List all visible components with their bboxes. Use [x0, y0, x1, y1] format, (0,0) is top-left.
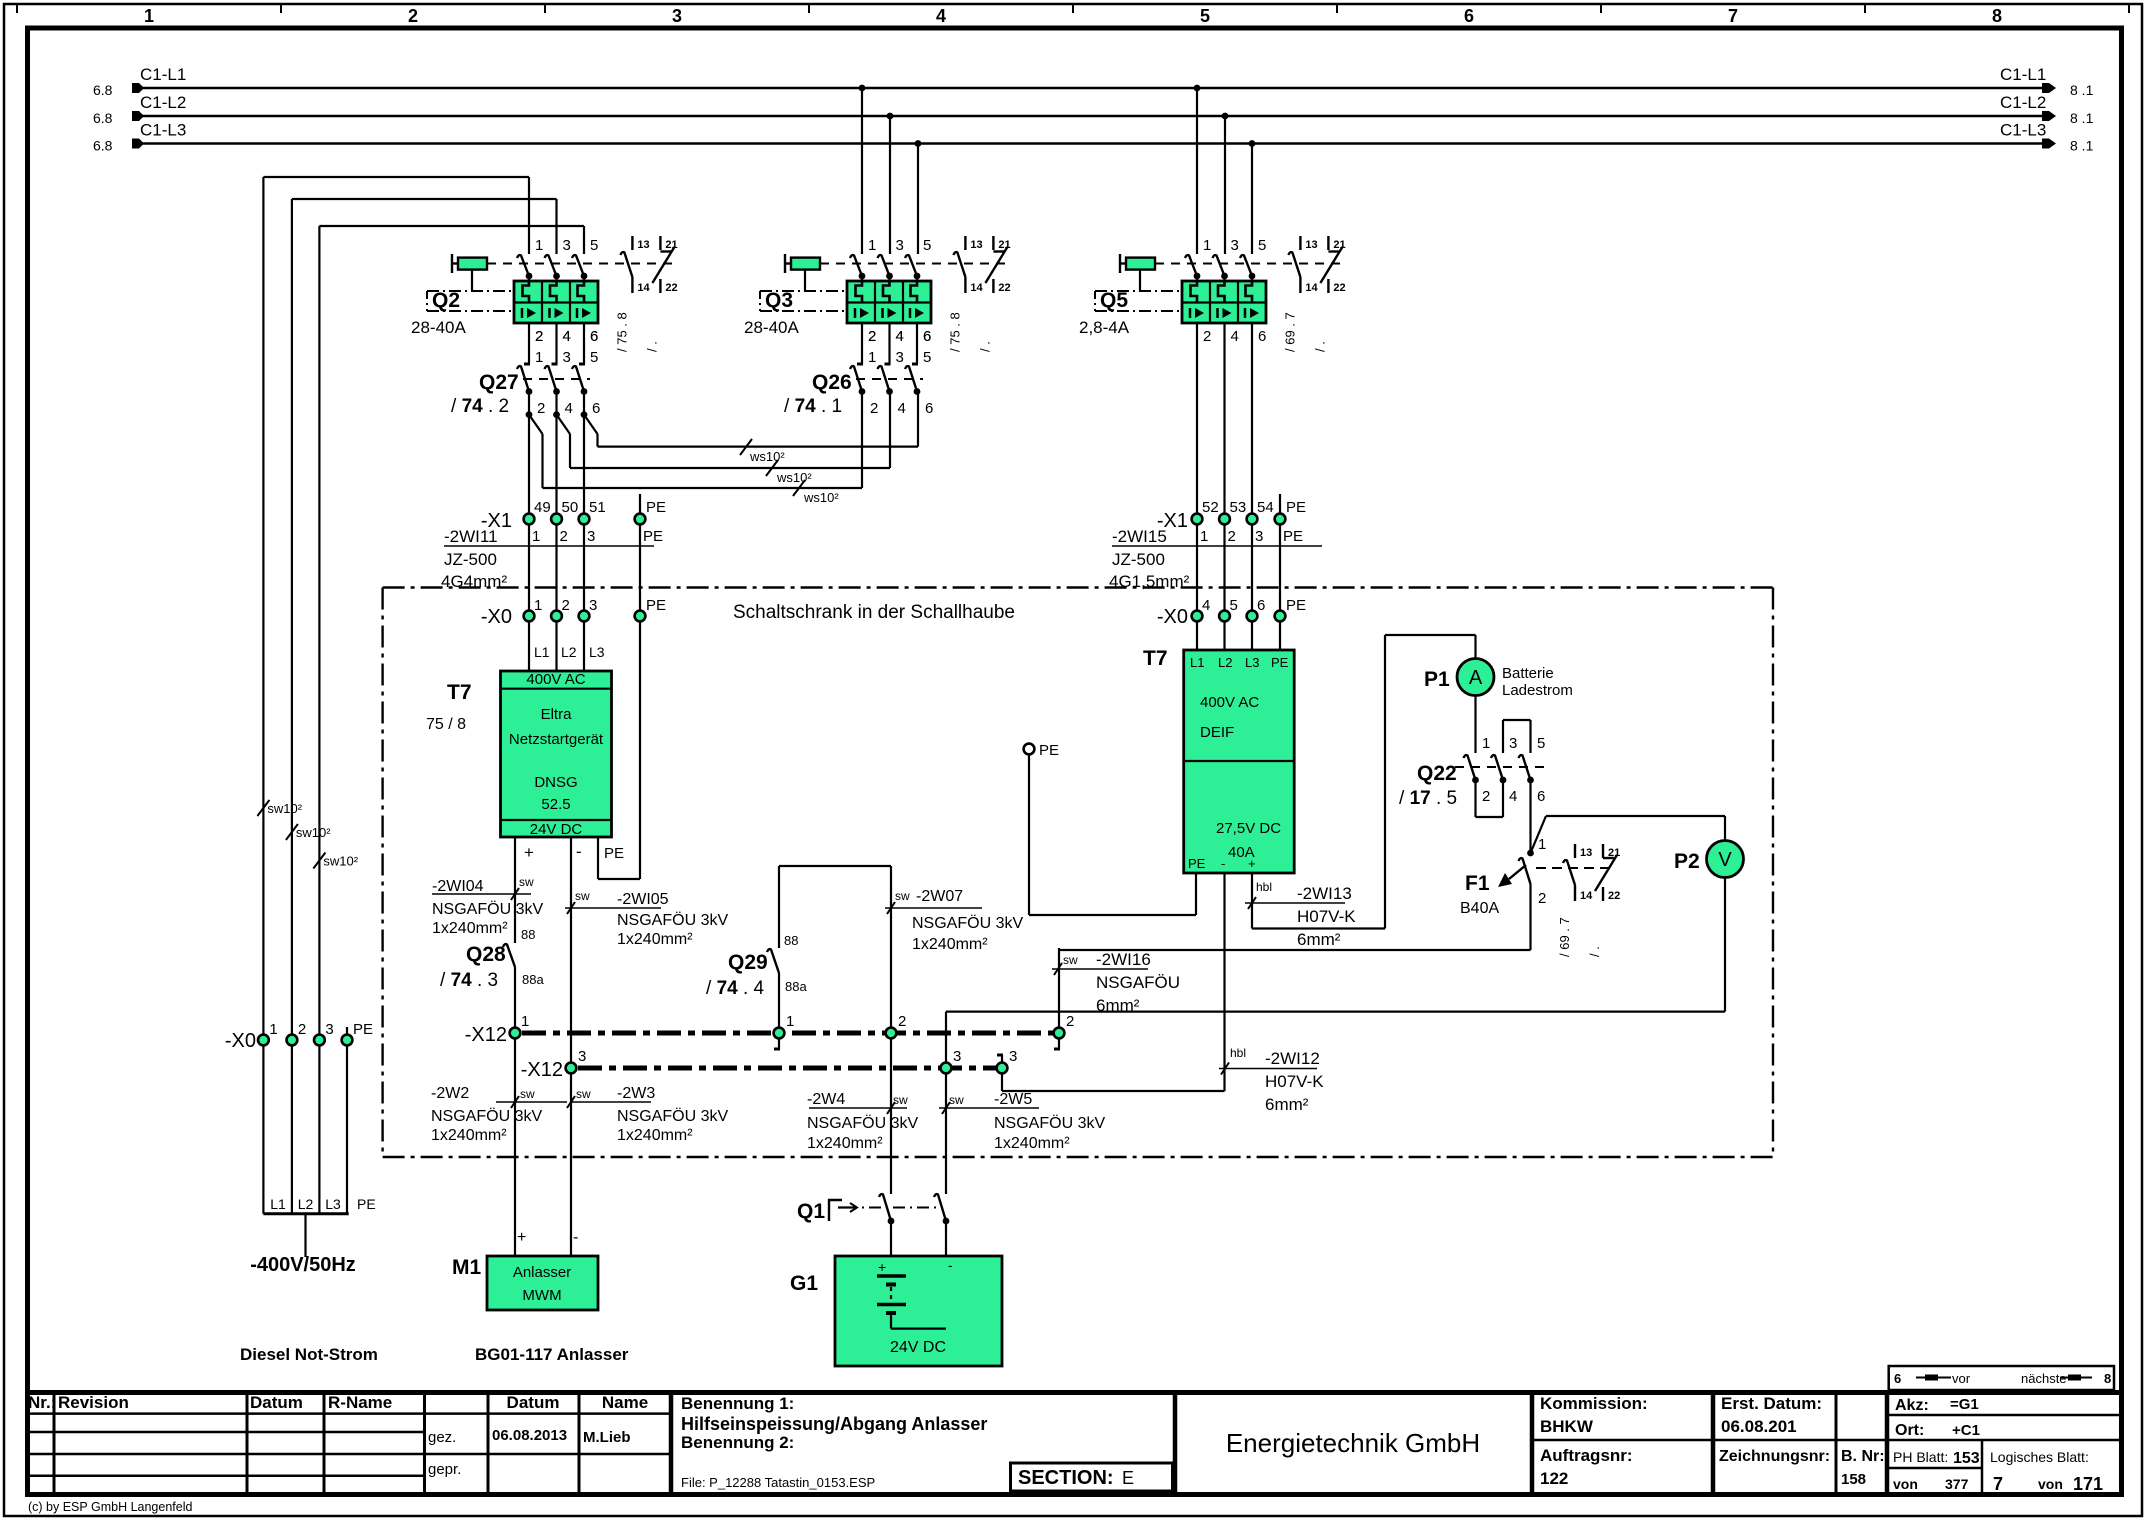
svg-text:88a: 88a [785, 979, 807, 994]
svg-text:-X12: -X12 [465, 1024, 507, 1046]
svg-text:Schaltschrank in der Schallhau: Schaltschrank in der Schallhaube [733, 602, 1015, 623]
svg-text:Datum: Datum [507, 1393, 560, 1412]
svg-text:3: 3 [672, 6, 682, 26]
svg-text:153: 153 [1953, 1450, 1980, 1467]
svg-text:1: 1 [1482, 735, 1490, 752]
svg-text:50: 50 [562, 499, 579, 516]
svg-text:Anlasser: Anlasser [513, 1264, 571, 1281]
svg-text:NSGAFÖU: NSGAFÖU [1096, 973, 1180, 992]
svg-text:2: 2 [535, 328, 543, 345]
svg-text:13: 13 [637, 239, 649, 251]
svg-text:/ 17 . 5: / 17 . 5 [1399, 788, 1457, 809]
svg-text:3: 3 [1509, 735, 1517, 752]
svg-text:PE: PE [646, 597, 666, 614]
svg-text:PE: PE [646, 499, 666, 516]
svg-text:1x240mm²: 1x240mm² [617, 931, 693, 948]
svg-text:1: 1 [868, 349, 876, 366]
svg-text:BG01-117 Anlasser: BG01-117 Anlasser [475, 1345, 629, 1364]
svg-text:5: 5 [1200, 6, 1210, 26]
svg-text:nächste: nächste [2021, 1371, 2067, 1386]
svg-text:/ 75 . 8: / 75 . 8 [614, 312, 629, 352]
svg-text:4: 4 [1509, 788, 1517, 805]
svg-text:3: 3 [563, 349, 571, 366]
svg-text:/ 74 . 2: / 74 . 2 [451, 396, 509, 417]
svg-text:Name: Name [602, 1393, 648, 1412]
svg-text:1: 1 [1200, 528, 1208, 545]
svg-text:1: 1 [868, 237, 876, 254]
svg-text:T7: T7 [447, 681, 472, 704]
svg-text:/ 69 . 7: / 69 . 7 [1282, 312, 1297, 352]
svg-text:28-40A: 28-40A [744, 318, 799, 337]
svg-text:M.Lieb: M.Lieb [583, 1429, 631, 1446]
svg-text:24V DC: 24V DC [530, 821, 583, 838]
svg-text:8 .1: 8 .1 [2070, 138, 2094, 154]
svg-text:L2: L2 [1218, 655, 1232, 670]
svg-text:PE: PE [1188, 856, 1206, 871]
svg-text:Auftragsnr:: Auftragsnr: [1540, 1446, 1633, 1465]
svg-text:5: 5 [590, 237, 598, 254]
svg-text:2: 2 [537, 400, 545, 417]
svg-text:R-Name: R-Name [328, 1393, 392, 1412]
svg-text:PE: PE [357, 1196, 376, 1212]
svg-text:B40A: B40A [1460, 900, 1499, 917]
svg-text:-2W5: -2W5 [994, 1091, 1032, 1108]
svg-text:Q26: Q26 [812, 371, 852, 394]
svg-text:75 / 8: 75 / 8 [426, 716, 466, 733]
svg-text:PH Blatt:: PH Blatt: [1893, 1449, 1948, 1465]
svg-text:2,8-4A: 2,8-4A [1079, 318, 1130, 337]
svg-text:NSGAFÖU 3kV: NSGAFÖU 3kV [432, 900, 543, 918]
svg-text:Revision: Revision [58, 1393, 129, 1412]
svg-text:L3: L3 [1245, 655, 1259, 670]
svg-text:C1-L3: C1-L3 [140, 121, 186, 140]
svg-text:49: 49 [534, 499, 551, 516]
svg-text:P1: P1 [1424, 668, 1450, 691]
svg-text:1: 1 [786, 1013, 794, 1030]
svg-text:-X0: -X0 [225, 1030, 256, 1052]
svg-text:6.8: 6.8 [93, 82, 113, 98]
svg-text:gepr.: gepr. [428, 1461, 461, 1478]
svg-text:6: 6 [1464, 6, 1474, 26]
svg-text:6: 6 [1258, 328, 1266, 345]
svg-text:Hilfseinspeissung/Abgang Anlas: Hilfseinspeissung/Abgang Anlasser [681, 1414, 987, 1434]
svg-text:8: 8 [1992, 6, 2002, 26]
svg-text:PE: PE [353, 1021, 373, 1038]
svg-text:6.8: 6.8 [93, 138, 113, 154]
svg-text:PE: PE [604, 845, 624, 862]
svg-text:L1: L1 [534, 644, 550, 660]
svg-text:21: 21 [665, 239, 677, 251]
svg-text:sw: sw [895, 889, 910, 903]
svg-text:3: 3 [563, 237, 571, 254]
svg-text:Energietechnik GmbH: Energietechnik GmbH [1226, 1428, 1480, 1458]
svg-text:sw: sw [949, 1093, 964, 1107]
svg-text:B. Nr:: B. Nr: [1841, 1448, 1885, 1465]
svg-text:von: von [1893, 1476, 1918, 1492]
svg-text:Benennung 1:: Benennung 1: [681, 1394, 794, 1413]
svg-text:E: E [1122, 1468, 1134, 1488]
svg-text:/ .: / . [1587, 946, 1602, 957]
svg-text:PE: PE [1271, 655, 1289, 670]
svg-text:1: 1 [1538, 836, 1546, 853]
svg-text:SECTION:: SECTION: [1018, 1467, 1114, 1489]
svg-text:-400V/50Hz: -400V/50Hz [250, 1254, 356, 1276]
svg-text:24V DC: 24V DC [890, 1339, 946, 1356]
svg-text:2: 2 [1538, 890, 1546, 907]
svg-text:-2W2: -2W2 [431, 1085, 469, 1102]
svg-text:Q22: Q22 [1417, 762, 1457, 785]
svg-text:-2WI05: -2WI05 [617, 891, 669, 908]
svg-text:sw10²: sw10² [296, 825, 331, 840]
svg-text:Q29: Q29 [728, 951, 768, 974]
svg-text:NSGAFÖU 3kV: NSGAFÖU 3kV [994, 1114, 1105, 1132]
svg-text:PE: PE [643, 528, 663, 545]
svg-text:-X0: -X0 [481, 606, 512, 628]
svg-text:-2W3: -2W3 [617, 1085, 655, 1102]
svg-text:22: 22 [665, 282, 677, 294]
svg-text:2: 2 [562, 597, 570, 614]
svg-text:14: 14 [970, 282, 983, 294]
svg-text:06.08.201: 06.08.201 [1721, 1417, 1797, 1436]
svg-text:5: 5 [923, 237, 931, 254]
svg-text:Q28: Q28 [466, 943, 506, 966]
svg-text:4: 4 [898, 400, 906, 417]
svg-text:1x240mm²: 1x240mm² [807, 1135, 883, 1152]
svg-text:400V AC: 400V AC [1200, 694, 1259, 711]
svg-text:7: 7 [1993, 1474, 2003, 1494]
svg-text:3: 3 [587, 528, 595, 545]
svg-text:Netzstartgerät: Netzstartgerät [509, 731, 604, 748]
svg-text:V: V [1718, 849, 1732, 871]
svg-text:3: 3 [896, 237, 904, 254]
svg-text:22: 22 [1608, 890, 1620, 902]
svg-text:4: 4 [896, 328, 904, 345]
svg-text:PE: PE [1286, 499, 1306, 516]
svg-text:L1: L1 [1190, 655, 1204, 670]
svg-text:-2WI11: -2WI11 [444, 527, 498, 546]
svg-text:Ort:: Ort: [1895, 1422, 1924, 1439]
svg-text:hbl: hbl [1256, 880, 1272, 894]
svg-text:sw10²: sw10² [267, 801, 302, 816]
svg-text:22: 22 [1333, 282, 1345, 294]
svg-text:+: + [878, 1259, 886, 1275]
svg-text:C1-L2: C1-L2 [2000, 93, 2046, 112]
svg-text:3: 3 [1255, 528, 1263, 545]
svg-text:5: 5 [1537, 735, 1545, 752]
svg-text:File: P_12288 Tatastin_0153.ES: File: P_12288 Tatastin_0153.ESP [681, 1475, 875, 1490]
svg-text:L3: L3 [589, 644, 605, 660]
svg-text:Batterie: Batterie [1502, 665, 1554, 682]
svg-text:8 .1: 8 .1 [2070, 110, 2094, 126]
svg-text:/ .: / . [977, 341, 992, 352]
svg-text:27,5V DC: 27,5V DC [1216, 820, 1281, 837]
svg-text:51: 51 [589, 499, 606, 516]
svg-text:-: - [576, 842, 582, 861]
svg-text:/ 74 . 4: / 74 . 4 [706, 978, 765, 999]
svg-text:L1: L1 [270, 1196, 286, 1212]
svg-text:+: + [1248, 856, 1256, 871]
svg-text:1x240mm²: 1x240mm² [994, 1135, 1070, 1152]
svg-text:400V AC: 400V AC [526, 671, 585, 688]
svg-text:MWM: MWM [522, 1287, 561, 1304]
svg-text:sw: sw [576, 1087, 591, 1101]
svg-text:14: 14 [1305, 282, 1318, 294]
svg-text:5: 5 [590, 349, 598, 366]
svg-text:2: 2 [868, 328, 876, 345]
svg-text:13: 13 [1305, 239, 1317, 251]
svg-text:Nr.:: Nr.: [28, 1393, 56, 1412]
svg-text:(c) by ESP GmbH Langenfeld: (c) by ESP GmbH Langenfeld [28, 1500, 192, 1514]
svg-text:C1-L1: C1-L1 [2000, 65, 2046, 84]
svg-text:2: 2 [560, 528, 568, 545]
svg-text:1: 1 [521, 1013, 529, 1030]
svg-text:2: 2 [898, 1013, 906, 1030]
svg-text:6: 6 [1537, 788, 1545, 805]
svg-text:L2: L2 [298, 1196, 314, 1212]
svg-text:3: 3 [325, 1021, 333, 1038]
svg-text:54: 54 [1257, 499, 1274, 516]
svg-text:-2WI13: -2WI13 [1297, 884, 1352, 903]
svg-text:Benennung 2:: Benennung 2: [681, 1433, 794, 1452]
svg-text:-2WI04: -2WI04 [432, 878, 484, 895]
svg-text:gez.: gez. [428, 1429, 456, 1446]
svg-text:G1: G1 [790, 1272, 818, 1295]
svg-text:T7: T7 [1143, 647, 1168, 670]
svg-text:13: 13 [970, 239, 982, 251]
svg-text:3: 3 [578, 1048, 586, 1065]
svg-text:53: 53 [1230, 499, 1247, 516]
svg-text:28-40A: 28-40A [411, 318, 466, 337]
svg-text:PE: PE [1283, 528, 1303, 545]
svg-text:+: + [517, 1229, 526, 1246]
svg-text:4: 4 [1202, 597, 1210, 614]
svg-text:+: + [524, 843, 534, 862]
svg-text:1x240mm²: 1x240mm² [432, 920, 508, 937]
svg-text:Erst. Datum:: Erst. Datum: [1721, 1394, 1822, 1413]
svg-text:sw: sw [519, 875, 534, 889]
svg-text:von: von [2038, 1476, 2063, 1492]
svg-text:Q3: Q3 [765, 289, 793, 312]
svg-text:BHKW: BHKW [1540, 1417, 1594, 1436]
svg-text:Q1: Q1 [797, 1200, 825, 1223]
svg-text:1x240mm²: 1x240mm² [617, 1127, 693, 1144]
svg-text:Eltra: Eltra [541, 706, 573, 723]
svg-text:7: 7 [1728, 6, 1738, 26]
svg-text:1: 1 [532, 528, 540, 545]
svg-text:PE: PE [1039, 742, 1059, 759]
svg-text:1x240mm²: 1x240mm² [431, 1127, 507, 1144]
svg-text:4: 4 [563, 328, 571, 345]
svg-text:DEIF: DEIF [1200, 724, 1234, 741]
svg-text:6mm²: 6mm² [1096, 996, 1140, 1015]
svg-text:-2WI16: -2WI16 [1096, 950, 1151, 969]
svg-text:6: 6 [590, 328, 598, 345]
svg-text:2: 2 [1066, 1013, 1074, 1030]
svg-text:8 .1: 8 .1 [2070, 82, 2094, 98]
svg-text:H07V-K: H07V-K [1297, 907, 1356, 926]
svg-text:sw10²: sw10² [323, 854, 358, 869]
svg-text:1: 1 [535, 349, 543, 366]
svg-text:C1-L2: C1-L2 [140, 93, 186, 112]
svg-text:NSGAFÖU 3kV: NSGAFÖU 3kV [617, 911, 728, 929]
svg-text:Diesel Not-Strom: Diesel Not-Strom [240, 1345, 378, 1364]
svg-text:NSGAFÖU 3kV: NSGAFÖU 3kV [912, 914, 1023, 932]
svg-text:NSGAFÖU 3kV: NSGAFÖU 3kV [431, 1107, 542, 1125]
svg-text:sw: sw [893, 1093, 908, 1107]
svg-text:Zeichnungsnr:: Zeichnungsnr: [1719, 1448, 1830, 1465]
svg-text:/ .: / . [1312, 341, 1327, 352]
svg-text:3: 3 [589, 597, 597, 614]
svg-text:5: 5 [1258, 237, 1266, 254]
svg-text:-: - [573, 1229, 578, 1246]
svg-text:2: 2 [408, 6, 418, 26]
svg-text:L3: L3 [325, 1196, 341, 1212]
svg-text:sw: sw [575, 889, 590, 903]
svg-text:21: 21 [1608, 847, 1620, 859]
svg-text:88: 88 [784, 933, 798, 948]
svg-text:3: 3 [896, 349, 904, 366]
svg-text:6: 6 [923, 328, 931, 345]
svg-text:JZ-500: JZ-500 [1112, 550, 1165, 569]
svg-text:2: 2 [870, 400, 878, 417]
svg-text:377: 377 [1945, 1476, 1969, 1492]
svg-text:C1-L3: C1-L3 [2000, 121, 2046, 140]
svg-text:/ 74 . 3: / 74 . 3 [440, 970, 498, 991]
svg-text:2: 2 [1203, 328, 1211, 345]
svg-text:DNSG: DNSG [534, 774, 577, 791]
svg-text:Q27: Q27 [479, 371, 519, 394]
svg-text:5: 5 [1230, 597, 1238, 614]
svg-text:Ladestrom: Ladestrom [1502, 682, 1573, 699]
svg-text:1: 1 [1203, 237, 1211, 254]
svg-text:1: 1 [534, 597, 542, 614]
svg-text:8: 8 [2104, 1371, 2111, 1386]
svg-text:1: 1 [535, 237, 543, 254]
svg-text:6.8: 6.8 [93, 110, 113, 126]
svg-text:2: 2 [1228, 528, 1236, 545]
svg-text:-X0: -X0 [1157, 606, 1188, 628]
svg-text:13: 13 [1580, 847, 1592, 859]
svg-text:hbl: hbl [1230, 1046, 1246, 1060]
svg-text:1: 1 [144, 6, 154, 26]
svg-text:A: A [1469, 667, 1483, 689]
svg-text:vor: vor [1952, 1371, 1971, 1386]
svg-text:/ 75 . 8: / 75 . 8 [947, 312, 962, 352]
svg-text:Q5: Q5 [1100, 289, 1128, 312]
svg-text:4: 4 [565, 400, 573, 417]
svg-text:F1: F1 [1465, 872, 1490, 895]
svg-text:-2W4: -2W4 [807, 1091, 845, 1108]
svg-text:6: 6 [1894, 1371, 1901, 1386]
svg-text:/ 69 . 7: / 69 . 7 [1557, 917, 1572, 957]
svg-text:88: 88 [521, 927, 535, 942]
svg-text:4: 4 [1231, 328, 1239, 345]
svg-text:PE: PE [1286, 597, 1306, 614]
svg-text:4: 4 [936, 6, 946, 26]
svg-text:6: 6 [592, 400, 600, 417]
svg-text:-: - [1221, 856, 1225, 871]
svg-text:sw: sw [520, 1087, 535, 1101]
svg-text:-2W07: -2W07 [916, 888, 963, 905]
svg-text:-X12: -X12 [521, 1059, 563, 1081]
svg-text:6mm²: 6mm² [1297, 930, 1341, 949]
svg-text:Datum: Datum [250, 1393, 303, 1412]
svg-text:C1-L1: C1-L1 [140, 65, 186, 84]
svg-text:sw: sw [1063, 953, 1078, 967]
svg-text:6: 6 [1257, 597, 1265, 614]
svg-text:NSGAFÖU 3kV: NSGAFÖU 3kV [617, 1107, 728, 1125]
svg-text:88a: 88a [522, 972, 544, 987]
svg-text:Logisches Blatt:: Logisches Blatt: [1990, 1449, 2089, 1465]
svg-text:21: 21 [1333, 239, 1345, 251]
svg-text:3: 3 [953, 1048, 961, 1065]
svg-text:ws10²: ws10² [749, 449, 785, 464]
svg-text:1: 1 [269, 1021, 277, 1038]
svg-text:52: 52 [1202, 499, 1219, 516]
svg-text:5: 5 [923, 349, 931, 366]
svg-text:06.08.2013: 06.08.2013 [492, 1427, 567, 1444]
svg-text:14: 14 [637, 282, 650, 294]
svg-text:/ 74 . 1: / 74 . 1 [784, 396, 842, 417]
svg-text:14: 14 [1580, 890, 1593, 902]
svg-text:22: 22 [998, 282, 1010, 294]
svg-text:-: - [948, 1257, 953, 1273]
svg-text:NSGAFÖU 3kV: NSGAFÖU 3kV [807, 1114, 918, 1132]
svg-text:L2: L2 [561, 644, 577, 660]
svg-text:-2WI15: -2WI15 [1112, 527, 1167, 546]
svg-text:6mm²: 6mm² [1265, 1095, 1309, 1114]
svg-text:H07V-K: H07V-K [1265, 1072, 1324, 1091]
svg-text:1x240mm²: 1x240mm² [912, 936, 988, 953]
svg-text:21: 21 [998, 239, 1010, 251]
svg-text:=G1: =G1 [1950, 1396, 1979, 1413]
svg-text:M1: M1 [452, 1256, 481, 1279]
svg-text:+C1: +C1 [1952, 1422, 1980, 1439]
svg-text:-2WI12: -2WI12 [1265, 1049, 1320, 1068]
svg-text:171: 171 [2073, 1474, 2103, 1494]
svg-text:3: 3 [1009, 1048, 1017, 1065]
svg-text:ws10²: ws10² [776, 470, 812, 485]
svg-text:2: 2 [1482, 788, 1490, 805]
svg-text:122: 122 [1540, 1469, 1568, 1488]
svg-text:6: 6 [925, 400, 933, 417]
svg-text:/ .: / . [644, 341, 659, 352]
svg-text:2: 2 [298, 1021, 306, 1038]
svg-text:Akz:: Akz: [1895, 1397, 1929, 1414]
svg-text:158: 158 [1841, 1471, 1866, 1488]
svg-text:52.5: 52.5 [541, 796, 570, 813]
svg-text:JZ-500: JZ-500 [444, 550, 497, 569]
svg-text:Q2: Q2 [432, 289, 460, 312]
svg-text:Kommission:: Kommission: [1540, 1394, 1648, 1413]
svg-text:3: 3 [1231, 237, 1239, 254]
svg-text:ws10²: ws10² [803, 490, 839, 505]
svg-text:P2: P2 [1674, 850, 1700, 873]
